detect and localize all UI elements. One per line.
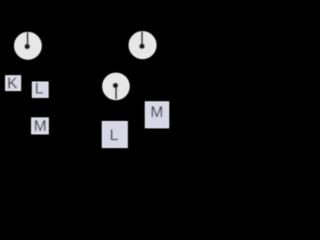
dial 2 (top-right, hand up) [129,31,156,58]
dial 1 (top-left, hand up) [14,32,41,59]
label box M (left) [32,118,49,134]
dial 3 (middle, hand down) [103,73,130,100]
label box K (left) [6,76,21,91]
label box M (right, large) [145,102,168,128]
label box L (left) [32,82,48,97]
label box L (right, large) [102,122,127,148]
